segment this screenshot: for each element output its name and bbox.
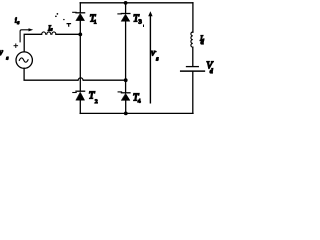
wire source bottom lead (24, 68, 78, 80)
svg-text:s: s (17, 20, 19, 26)
wire T1 to node A (79, 21, 81, 35)
label T2 (89, 91, 98, 105)
stray dot below inductor area (63, 19, 64, 20)
wire battery to bottom rail (192, 72, 194, 114)
wire bottom rail (80, 112, 193, 114)
label T3 (133, 13, 142, 25)
svg-text:4: 4 (138, 99, 141, 105)
wire hop to node B (83, 79, 126, 81)
node A junction dot (78, 33, 82, 37)
svg-text:s: s (6, 55, 8, 61)
inductor Ld (191, 32, 193, 47)
svg-text:2: 2 (95, 99, 98, 105)
stray dot pair (57, 13, 59, 15)
wire T3 to node B (125, 21, 127, 80)
battery Vd plates (181, 67, 205, 72)
label T1 (90, 14, 97, 26)
wire right column upper (192, 3, 194, 32)
thyristor T2 (73, 91, 85, 100)
wire rail to T3 (125, 3, 127, 14)
junction dot top rail right leg (124, 1, 128, 5)
sine symbol (19, 58, 28, 62)
wire hop over left leg (78, 78, 83, 80)
svg-text:s: s (156, 57, 159, 63)
wire left leg top (rail to T1) (79, 3, 81, 13)
label vd (151, 48, 159, 62)
label is (15, 16, 20, 26)
plus sign near source (14, 44, 18, 48)
wire source top lead and corner (24, 34, 41, 52)
label Ls (47, 24, 52, 32)
inductor Ls (42, 32, 56, 34)
wire inductor to battery (192, 47, 194, 66)
stray T-shaped mark (67, 24, 70, 27)
wire node A down through hop to T2 (79, 34, 81, 91)
thyristor T3 (118, 14, 130, 22)
wire top rail (80, 2, 193, 4)
label vs (0, 47, 8, 62)
faint mark right of T3 label (143, 25, 145, 27)
svg-text:d: d (210, 69, 214, 75)
wire T4 to bottom rail (125, 100, 127, 113)
svg-text:1: 1 (94, 19, 97, 25)
thyristor T4 (118, 92, 130, 101)
node B junction dot (124, 78, 128, 82)
svg-text:v: v (0, 47, 3, 57)
ac source vs circle (16, 52, 32, 68)
label Ld (199, 35, 204, 46)
junction dot bottom rail (124, 112, 128, 116)
label Vd (206, 61, 214, 75)
svg-text:3: 3 (139, 18, 142, 25)
svg-text:s: s (51, 27, 53, 32)
wire inductor to node A (56, 33, 80, 35)
wire T2 to bottom rail (79, 100, 81, 113)
voltage arrow vd (149, 15, 151, 103)
label T4 (133, 92, 141, 104)
wire node B to T4 (125, 80, 127, 93)
thyristor T1 (73, 12, 85, 20)
current arrow is (20, 30, 29, 42)
